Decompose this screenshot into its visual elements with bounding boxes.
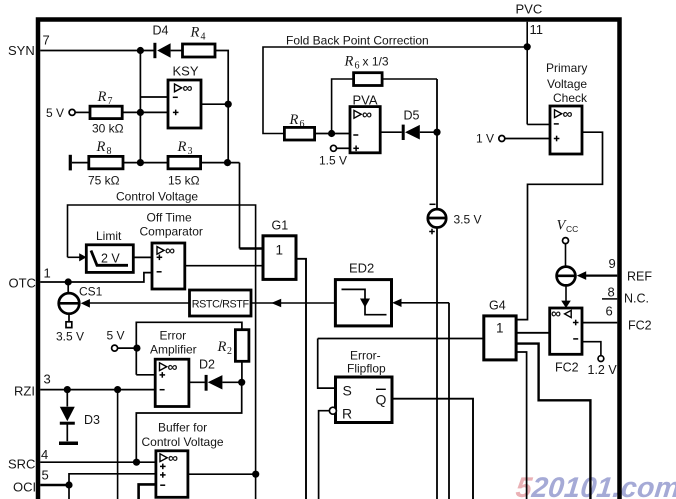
svg-text:R: R <box>177 139 187 155</box>
svg-text:SRC: SRC <box>8 457 35 472</box>
wire SRC to buffer <box>40 461 156 463</box>
svg-text:G1: G1 <box>272 219 289 233</box>
svg-text:x 1/3: x 1/3 <box>363 55 389 69</box>
block RSTC/RSTF <box>190 290 252 316</box>
svg-text:FC2: FC2 <box>555 361 579 375</box>
svg-text:PVC: PVC <box>516 2 543 17</box>
wire to EA plus input <box>136 374 155 376</box>
svg-text:R: R <box>217 339 227 355</box>
svg-text:FC2: FC2 <box>628 319 652 333</box>
svg-text:2 V: 2 V <box>101 252 120 266</box>
svg-text:1: 1 <box>276 243 284 258</box>
svg-text:OCI: OCI <box>13 480 36 495</box>
svg-text:11: 11 <box>530 22 544 37</box>
svg-text:S: S <box>343 383 352 399</box>
svg-text:Voltage: Voltage <box>547 77 587 91</box>
gate G1 <box>263 219 296 280</box>
voltage source 3.5V middle <box>428 79 482 499</box>
svg-text:∞: ∞ <box>551 305 561 321</box>
wire PVA out <box>380 131 402 133</box>
node OTC/CS1 junction <box>65 278 72 285</box>
wire up to R6x1/3 <box>332 79 354 134</box>
node D2/R2 junction <box>238 379 245 386</box>
diode D3 <box>60 390 100 442</box>
svg-text:D2: D2 <box>199 358 215 372</box>
wire OCI down <box>68 485 70 499</box>
svg-text:∞: ∞ <box>165 242 175 258</box>
node R8/R3 junction <box>137 159 144 166</box>
svg-text:SYN: SYN <box>8 43 35 58</box>
wire PVC output routing to G4 <box>516 132 602 319</box>
svg-text:5 V: 5 V <box>46 106 64 120</box>
wire feedback vertical net x140 <box>139 51 141 163</box>
wire EA output <box>189 381 205 383</box>
wire G1 input 1 <box>240 247 264 250</box>
svg-text:Error: Error <box>160 329 187 343</box>
wire D2 node down-left to SRC junction <box>136 382 241 462</box>
current source REF <box>557 267 576 308</box>
svg-text:Amplifier: Amplifier <box>150 343 197 357</box>
gate G4 <box>484 299 516 360</box>
comparator Primary Voltage Check <box>546 61 588 154</box>
comparator FC2 (mirrored) <box>550 305 582 375</box>
wire G1 output down <box>296 259 306 499</box>
svg-text:Control Voltage: Control Voltage <box>142 435 224 449</box>
wire R input with bubble <box>329 407 336 414</box>
svg-text:KSY: KSY <box>173 64 199 79</box>
wire comparator out to G1 <box>185 265 263 267</box>
svg-text:Check: Check <box>553 91 588 105</box>
wire R2 bottom to D2 node <box>241 361 243 382</box>
node D5 output junction <box>433 129 440 136</box>
svg-text:RSTC/RSTF: RSTC/RSTF <box>192 299 250 311</box>
wire KSY output <box>201 103 228 105</box>
resistor R2 <box>217 330 249 362</box>
svg-text:520101.com: 520101.com <box>514 472 676 499</box>
svg-text:6: 6 <box>606 304 613 319</box>
svg-text:∞: ∞ <box>168 359 178 375</box>
diode D2 <box>199 358 242 391</box>
svg-text:Buffer for: Buffer for <box>158 421 207 435</box>
svg-text:30 kΩ: 30 kΩ <box>92 122 124 136</box>
node RZI/D3 junction <box>64 386 71 393</box>
svg-text:Primary: Primary <box>546 61 587 75</box>
node RZI branch junction <box>114 386 121 393</box>
svg-text:1: 1 <box>44 266 51 281</box>
op-amp Error Amplifier <box>150 329 197 407</box>
svg-text:R: R <box>342 406 352 422</box>
terminal bar R8 left <box>69 155 72 171</box>
svg-text:3.5 V: 3.5 V <box>454 213 482 227</box>
wire R3 junction down to G1 <box>239 163 241 249</box>
wire buffer minus from bottom <box>139 484 156 499</box>
svg-text:5 V: 5 V <box>107 329 125 343</box>
svg-text:Off Time: Off Time <box>147 211 192 225</box>
svg-text:R: R <box>97 89 107 105</box>
node OCI junction <box>65 481 72 488</box>
comparator Off Time Comparator <box>140 211 203 290</box>
svg-text:Error-: Error- <box>350 349 381 363</box>
wire ED2 out to RSTC and CS1 <box>89 302 190 304</box>
node KSY output junction <box>225 101 232 108</box>
node SRC junction <box>133 459 140 466</box>
wire 5V loop up over R2 <box>136 322 242 375</box>
wire G4 output 2 down <box>516 352 527 499</box>
ground bar below D3 <box>59 441 78 445</box>
svg-text:∞: ∞ <box>168 450 178 466</box>
svg-text:1.5 V: 1.5 V <box>319 154 347 168</box>
wire pin11 to PVC minus <box>527 123 550 125</box>
svg-text:D5: D5 <box>404 109 420 123</box>
svg-text:6: 6 <box>355 61 360 72</box>
svg-text:4: 4 <box>201 32 206 43</box>
resistor R6 <box>284 112 314 140</box>
comparator KSY <box>168 64 201 129</box>
svg-text:Flipflop: Flipflop <box>347 362 386 376</box>
wire limit out to comparator plus <box>133 256 152 258</box>
svg-text:REF: REF <box>627 270 652 284</box>
svg-text:Limit: Limit <box>96 229 122 243</box>
svg-text:CC: CC <box>566 224 578 234</box>
svg-text:N.C.: N.C. <box>624 292 649 306</box>
node PVA minus junction <box>328 130 335 137</box>
svg-text:3: 3 <box>44 372 51 387</box>
resistor R8 75k <box>88 139 123 188</box>
resistor R6 x 1/3 <box>344 54 389 86</box>
svg-text:7: 7 <box>43 33 50 48</box>
wire RZI to EA minus <box>40 389 155 391</box>
diode D5 <box>403 109 437 141</box>
svg-text:ED2: ED2 <box>349 261 374 276</box>
flip-flop Error-Flipflop <box>336 349 393 423</box>
wire OTC to comparator minus <box>40 273 152 282</box>
svg-text:R: R <box>96 139 106 155</box>
wire RZI branch down <box>117 390 119 499</box>
node foldback/PVC junction <box>524 43 531 50</box>
svg-text:1.2 V: 1.2 V <box>588 363 618 377</box>
svg-text:Q: Q <box>376 392 387 408</box>
svg-text:Control Voltage: Control Voltage <box>116 190 198 204</box>
svg-text:∞: ∞ <box>563 106 573 122</box>
wire R6x1/3 right to D5 node <box>382 78 437 80</box>
svg-text:2: 2 <box>227 346 232 357</box>
svg-text:Comparator: Comparator <box>140 225 203 239</box>
wire R4 right down to R3 junction <box>215 51 228 163</box>
wire R7 to KSY plus <box>122 111 168 113</box>
svg-text:R: R <box>289 112 299 128</box>
svg-text:3.5 V: 3.5 V <box>56 330 84 344</box>
node R3 output junction <box>224 159 231 166</box>
svg-text:∞: ∞ <box>183 80 193 96</box>
wire into limit arrow <box>68 256 81 258</box>
svg-text:CS1: CS1 <box>79 285 103 299</box>
watermark 520101.com <box>514 472 676 499</box>
svg-text:9: 9 <box>609 256 616 271</box>
wire S line to G4 input <box>318 338 484 340</box>
diode D4 <box>153 24 183 59</box>
wire to KSY minus input <box>140 96 168 98</box>
wire 5V to R7 <box>75 111 90 113</box>
svg-text:RZI: RZI <box>14 384 35 399</box>
resistor R4 <box>183 25 216 58</box>
op-amp PVA <box>350 93 380 153</box>
svg-text:Fold Back Point Correction: Fold Back Point Correction <box>286 34 429 48</box>
wire OCI <box>40 484 69 487</box>
block Limit (2V) <box>86 229 133 272</box>
svg-text:D3: D3 <box>84 413 100 427</box>
resistor R7 30k <box>90 89 124 136</box>
wire bar to R8 <box>72 162 89 164</box>
wire R3 right <box>201 162 240 164</box>
svg-text:4: 4 <box>41 447 48 462</box>
op-amp Buffer for Control Voltage <box>142 421 224 498</box>
block ED2 edge detector <box>335 261 391 326</box>
wire buffer output to CV net <box>188 473 256 475</box>
svg-text:G4: G4 <box>489 299 506 313</box>
wire ED2 right input <box>392 299 401 307</box>
svg-text:75 kΩ: 75 kΩ <box>88 174 120 188</box>
terminal Vcc <box>557 218 579 267</box>
wire SYN to D4 <box>40 50 154 52</box>
svg-text:8: 8 <box>608 285 615 300</box>
node buffer output junction <box>252 471 259 478</box>
wire OCI branch to buffer plus2 <box>69 474 156 485</box>
wire R6 to PVA minus <box>315 133 350 135</box>
resistor R3 15k <box>168 139 201 188</box>
wire G4 output route right-down <box>516 344 590 499</box>
wire control voltage feedback net <box>68 205 256 499</box>
svg-text:1: 1 <box>496 321 504 336</box>
svg-text:∞: ∞ <box>362 106 372 122</box>
svg-text:R: R <box>344 54 354 70</box>
wire G4 to FC2 <box>516 332 550 334</box>
wire Q-bar output <box>392 399 473 499</box>
svg-text:1 V: 1 V <box>476 132 494 146</box>
svg-text:R: R <box>190 25 200 41</box>
svg-text:5: 5 <box>42 468 49 483</box>
svg-text:D4: D4 <box>153 24 169 38</box>
svg-text:15 kΩ: 15 kΩ <box>168 174 200 188</box>
wire ED2 input vertical from bottom <box>448 303 450 499</box>
node 5V junction <box>133 345 140 352</box>
terminal 1.2V <box>582 342 601 356</box>
svg-text:OTC: OTC <box>9 276 36 291</box>
current source CS1 <box>56 282 103 344</box>
wire R8 to R3 <box>123 162 168 164</box>
node R7/KSY plus junction <box>137 109 144 116</box>
node SYN/D4 junction <box>137 47 144 54</box>
wire fold back line R6 to PVC <box>263 47 527 134</box>
